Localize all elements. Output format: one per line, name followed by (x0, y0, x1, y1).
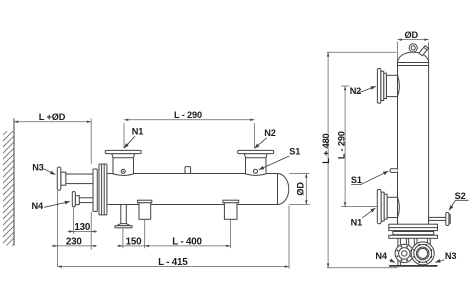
svg-text:130: 130 (74, 222, 90, 233)
svg-text:N2: N2 (264, 128, 275, 138)
svg-text:N1: N1 (132, 127, 143, 137)
svg-text:S2: S2 (455, 191, 466, 201)
svg-text:L - 290: L - 290 (337, 131, 347, 159)
svg-text:L - 400: L - 400 (172, 236, 202, 247)
svg-text:L - 415: L - 415 (158, 257, 188, 268)
svg-text:N3: N3 (32, 163, 43, 173)
svg-text:S1: S1 (351, 175, 362, 185)
svg-text:ØD: ØD (405, 30, 419, 40)
svg-text:N4: N4 (375, 251, 387, 261)
svg-text:N3: N3 (445, 251, 456, 261)
svg-text:L - 290: L - 290 (174, 110, 202, 120)
svg-text:N1: N1 (351, 218, 362, 228)
svg-text:L + 480: L + 480 (321, 133, 331, 163)
svg-text:N2: N2 (350, 86, 361, 96)
svg-text:N4: N4 (32, 201, 44, 211)
svg-text:S1: S1 (289, 146, 300, 156)
svg-text:150: 150 (126, 236, 142, 247)
svg-text:L +ØD: L +ØD (39, 112, 66, 122)
svg-text:ØD: ØD (295, 182, 305, 196)
svg-text:230: 230 (66, 236, 82, 247)
